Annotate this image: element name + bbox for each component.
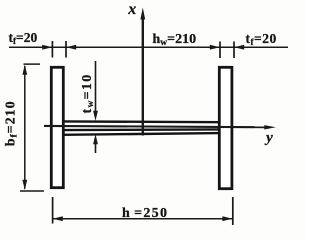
svg-text:tf=20: tf=20: [246, 31, 277, 47]
bf bottom tick: [20, 190, 44, 192]
tick right flange outer: [233, 42, 235, 59]
left flange: [51, 67, 63, 187]
bf dimension line: [24, 66, 26, 189]
bf top tick: [24, 63, 41, 65]
arrow hw left end pointing left: [66, 45, 76, 50]
bf arrow down: [22, 180, 27, 190]
svg-text:bf=210: bf=210: [3, 100, 19, 146]
y axis arrowhead: [264, 125, 276, 129]
web bottom line: [63, 133, 220, 135]
bottom left tick: [52, 197, 54, 224]
bf arrow up: [22, 65, 27, 75]
svg-text:h=250: h=250: [122, 206, 168, 221]
svg-text:hw=210: hw=210: [153, 32, 197, 48]
tw dimension lower wire: [95, 143, 97, 153]
arrow tf right pointing left: [234, 45, 244, 50]
bottom arrow left pointing left: [53, 216, 63, 221]
top dimension line: [9, 46, 288, 48]
tick right flange inner: [219, 42, 221, 59]
web middle line: [63, 128, 220, 131]
x axis arrowhead: [140, 8, 145, 20]
bottom dimension line: [53, 218, 233, 220]
x axis wire: [142, 17, 144, 136]
svg-text:x: x: [127, 1, 136, 18]
y axis wire: [44, 126, 267, 127]
tick left flange outer: [51, 41, 53, 58]
tw arrow up: [93, 134, 98, 144]
svg-text:tf=20: tf=20: [9, 30, 38, 46]
svg-text:y: y: [264, 130, 273, 146]
svg-text:tw=10: tw=10: [80, 73, 96, 113]
tw arrow down: [93, 111, 98, 121]
bottom arrow right pointing right: [222, 216, 232, 221]
arrow hw right end pointing right: [210, 45, 220, 50]
tw dimension upper wire: [95, 61, 97, 112]
right flange: [219, 67, 232, 188]
arrow tf left pointing right: [42, 45, 52, 50]
tick left flange inner: [65, 41, 67, 58]
bottom right tick: [232, 197, 234, 225]
web top line: [63, 120, 220, 123]
